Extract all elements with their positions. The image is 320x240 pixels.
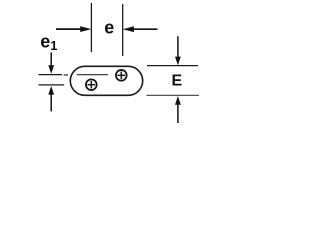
dimension e: left extension line [90,3,92,52]
svg-text:e: e [104,18,114,38]
dimension e: left arrow [56,26,91,32]
dimension e1: bottom extension line [39,84,65,86]
dimension E: down arrow [175,36,181,65]
package outline (stadium) [70,66,142,95]
dimension e1: top extension line [39,74,63,76]
svg-text:e: e [40,31,50,51]
svg-text:E: E [172,72,183,89]
pad P2 (right crosshair) [116,70,127,81]
center line through pad P2 [64,74,109,76]
dimension e1: down arrow [48,53,54,74]
dimension E: top extension line [147,65,198,67]
dimension e: right extension line [122,4,124,56]
svg-text:1: 1 [50,38,57,53]
dimension e1: up arrow [48,86,54,111]
dimension e: right arrow [123,26,158,32]
dimension E: bottom extension line [146,94,199,96]
pad P1 (left crosshair) [86,79,97,90]
dimension E: up arrow [175,96,181,123]
